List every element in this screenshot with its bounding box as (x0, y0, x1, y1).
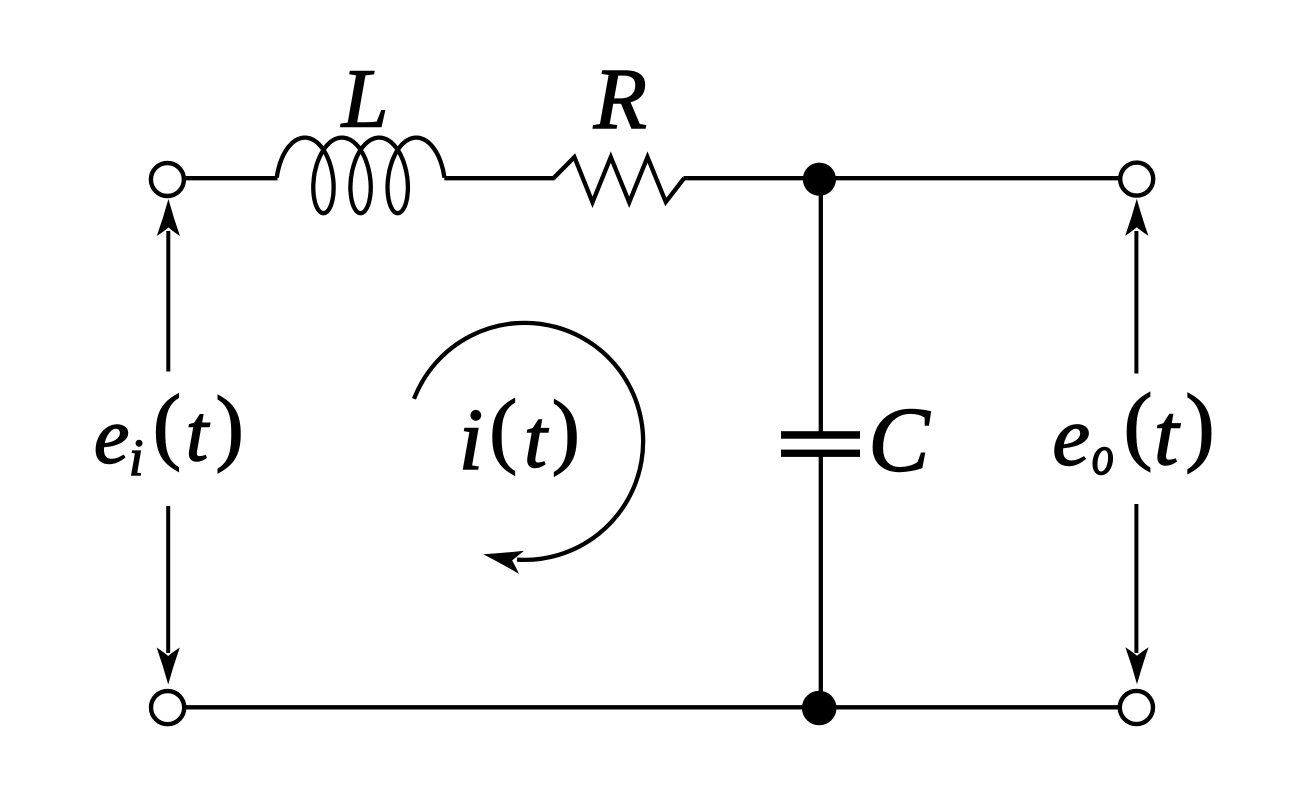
e_o up arrow shaft (1134, 231, 1138, 374)
wire node A down to capacitor (819, 179, 823, 433)
svg-text:i: i (459, 391, 483, 488)
terminal bottom-left (151, 691, 184, 724)
e_i up arrow shaft (166, 231, 170, 372)
svg-text:(: ( (153, 379, 181, 472)
svg-text:(: ( (489, 383, 517, 475)
svg-text:C: C (868, 389, 931, 491)
wire bottom rail (185, 705, 1119, 709)
svg-text:o: o (1092, 425, 1114, 487)
wire capacitor to bottom node B (819, 455, 823, 707)
svg-text:(: ( (1124, 376, 1153, 472)
svg-text:t: t (186, 389, 210, 478)
svg-text:e: e (1052, 390, 1090, 484)
svg-text:L: L (341, 53, 389, 146)
svg-text:): ) (216, 379, 244, 473)
i(t) mesh-current loop arc (414, 323, 643, 560)
e_o down arrow shaft (1134, 504, 1138, 653)
e_o down arrowhead (1125, 647, 1148, 684)
e_i down arrowhead (157, 648, 180, 685)
svg-text:t: t (1154, 386, 1181, 484)
wire node A to top-right terminal (820, 176, 1119, 180)
wire top-left to inductor (185, 176, 278, 180)
inductor L (277, 138, 445, 214)
svg-text:e: e (94, 393, 129, 481)
e_o up arrowhead (1125, 199, 1148, 236)
e_i up arrowhead (157, 199, 180, 236)
svg-text:): ) (552, 384, 580, 477)
terminal top-left (151, 163, 184, 196)
resistor R (554, 157, 685, 202)
capacitor C plates (781, 431, 860, 457)
svg-text:): ) (1185, 377, 1214, 475)
wire inductor to resistor (444, 176, 554, 180)
node B (bottom junction dot) (802, 691, 837, 726)
node A (top junction dot) (803, 163, 836, 196)
e_i down arrow shaft (166, 506, 170, 653)
svg-text:R: R (593, 50, 647, 147)
terminal top-right (1120, 163, 1153, 196)
svg-text:i: i (129, 430, 143, 487)
terminal bottom-right (1120, 691, 1153, 724)
wire resistor to node A (684, 176, 821, 180)
i(t) loop arrowhead (481, 543, 524, 574)
svg-text:t: t (524, 394, 549, 485)
